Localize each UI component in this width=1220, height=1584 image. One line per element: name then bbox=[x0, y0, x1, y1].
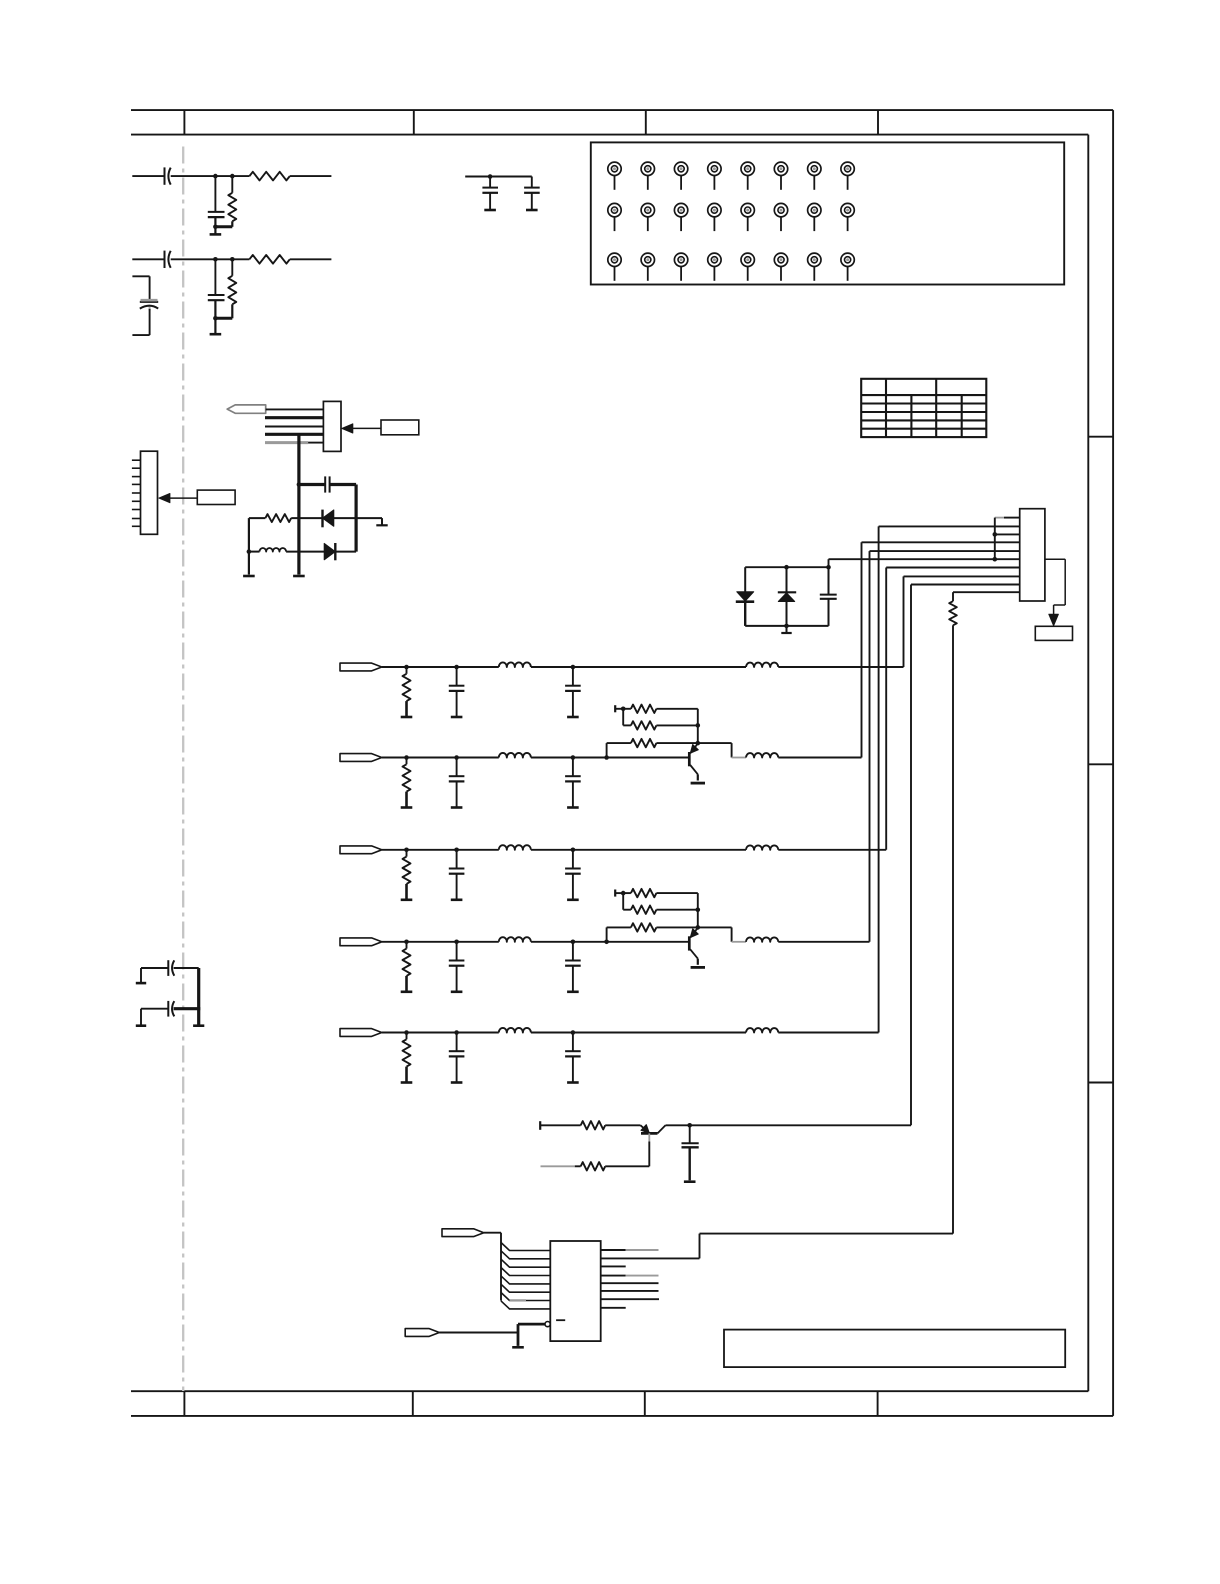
node channel 2 R feedback tap bbox=[604, 755, 609, 760]
detail label box under J4 bbox=[1035, 626, 1072, 640]
wire Q4 emitter to ground bbox=[697, 959, 699, 965]
capacitor C2a (shunt) bbox=[456, 758, 458, 777]
wire channel 5 seg5 bbox=[573, 1032, 746, 1034]
ic U1 body bbox=[550, 1241, 600, 1341]
node Q4 collector tie 2 bbox=[696, 925, 701, 930]
capacitor C4 (shunt input 2) bbox=[214, 259, 216, 295]
node suppressor bottom mid bbox=[784, 624, 789, 629]
wire channel 3 to bus bbox=[778, 849, 886, 851]
node input1-b bbox=[230, 174, 235, 179]
connector J3 test point pins bbox=[608, 162, 855, 281]
capacitor C4b (shunt) bbox=[572, 942, 574, 961]
reference label box for J2 bbox=[197, 490, 235, 504]
wire R4b3 lead left bbox=[607, 926, 631, 928]
node Q4 collector tie 1 bbox=[696, 907, 701, 912]
page frame right border bbox=[1087, 135, 1089, 1392]
node input1-a bbox=[213, 174, 218, 179]
wire U1 output pin 2 (to J4 pin10 net) bbox=[601, 1257, 700, 1259]
node channel 2 cap A bbox=[454, 755, 459, 760]
wire input line 1 output bbox=[290, 175, 332, 177]
inductor L3a (series) bbox=[499, 845, 531, 850]
wire R8 to Q3 stem bbox=[605, 1165, 649, 1167]
connector J4 body bbox=[1020, 509, 1045, 601]
connector J3 header outline bbox=[591, 142, 1064, 284]
ground R51 bbox=[401, 1081, 413, 1084]
resistor R4b3 bbox=[631, 923, 657, 931]
wire C11 right lead bbox=[174, 967, 199, 969]
ground C11-C12 right leg bbox=[193, 1024, 204, 1027]
ground suppressor bbox=[786, 626, 788, 633]
wire Q4 bias tie vertical bbox=[622, 893, 624, 910]
ground C11 left bbox=[136, 982, 146, 985]
terminal stub Q3 input bbox=[539, 1121, 541, 1130]
wire J4 pin1 stub bbox=[995, 517, 1004, 519]
wire Q4 output drop bbox=[698, 926, 732, 928]
wire J4 pin2 bbox=[879, 525, 1020, 527]
net label tag (left-pointing) for J1 bbox=[227, 405, 266, 413]
ground Q2 bbox=[691, 782, 705, 785]
resistor R4b1 bbox=[631, 889, 657, 897]
arrow to J1 bbox=[349, 427, 381, 429]
node link input 1 bbox=[213, 225, 218, 230]
wire channel 2 to bus bbox=[778, 757, 861, 759]
ground C7 bbox=[526, 209, 538, 212]
diode D2 (points up) bbox=[786, 567, 788, 592]
terminal stub Q4 bias bbox=[614, 890, 616, 897]
diode D4 (points right) bbox=[324, 543, 335, 559]
wire C12 left lead bbox=[141, 1008, 168, 1010]
wire channel 3 seg3 bbox=[457, 849, 499, 851]
wire U1 output pin 1 bbox=[601, 1249, 626, 1251]
wire Q2 node vertical bbox=[697, 709, 699, 743]
wire channel 2 seg4 bbox=[531, 757, 573, 759]
wire Q4 node vertical bbox=[697, 893, 699, 927]
wire channel 3 seg5 bbox=[573, 849, 746, 851]
resistor R31 (shunt) bbox=[406, 850, 408, 857]
node link input 2 bbox=[213, 316, 218, 321]
node channel 1 cap A bbox=[454, 665, 459, 670]
wire R4b2 to node bbox=[656, 909, 697, 911]
wire channel 1 seg4 bbox=[531, 666, 573, 668]
node J4 pin3 tie bbox=[993, 532, 998, 537]
wire Q3 base row bbox=[540, 1124, 581, 1126]
inductor L1b (series output) bbox=[746, 663, 778, 667]
node channel 4 shunt R bbox=[404, 940, 409, 945]
resistor R4 (shunt input 2) bbox=[231, 259, 233, 276]
ground R31 bbox=[401, 898, 413, 901]
node suppressor top mid bbox=[784, 565, 789, 570]
wire channel 3 input bbox=[382, 849, 407, 851]
wire link C4-R4 bottom bbox=[214, 317, 232, 320]
wire channel 2 input bbox=[382, 757, 407, 759]
wire J4 pin4 bbox=[862, 541, 1020, 543]
wire channel 1 seg2 bbox=[407, 666, 457, 668]
net label tag channel 3 bbox=[340, 846, 382, 854]
node J4 pin6 tie bbox=[993, 557, 998, 562]
arrow to J2 bbox=[170, 497, 198, 499]
wire R2b3 lead left bbox=[607, 742, 631, 744]
node channel 5 shunt R bbox=[404, 1030, 409, 1035]
net label tag channel 5 bbox=[340, 1029, 382, 1037]
wire C5 bottom stub bbox=[149, 307, 151, 310]
wire channel 2 seg3 bbox=[457, 757, 499, 759]
capacitor C6 (decoupling) bbox=[489, 177, 491, 188]
wire R4b1 to node bbox=[656, 892, 697, 894]
resistor R6 (on J4 pin10 net) bbox=[952, 592, 954, 601]
wire J1 pin 1 bbox=[266, 408, 324, 410]
resistor R8 bbox=[581, 1162, 606, 1170]
wire Q3 collector row bbox=[666, 1124, 912, 1126]
wire Q4 output stub (faded) bbox=[732, 941, 746, 943]
wire bus to channel 3 bbox=[885, 568, 887, 850]
capacitor C12 (series) bbox=[167, 1001, 169, 1017]
wire Q2 bias tie vertical bbox=[622, 709, 624, 726]
wire channel 2 seg2 bbox=[407, 757, 457, 759]
node channel 4 cap A bbox=[454, 940, 459, 945]
capacitor C1a (shunt) bbox=[456, 667, 458, 686]
wire Q2 output stub (faded) bbox=[732, 757, 746, 759]
resistor R3 (series input 2) bbox=[249, 255, 289, 264]
resistor R1 (series input 1) bbox=[249, 172, 289, 181]
connector J2 pin stubs bbox=[132, 460, 141, 526]
wire J1 pin 5 (faded) bbox=[265, 441, 308, 444]
wire channel 1 input bbox=[382, 666, 407, 668]
inductor L2a (series) bbox=[499, 753, 531, 758]
resistor R21 (shunt) bbox=[406, 758, 408, 765]
wire R5 to D3 bbox=[291, 517, 322, 519]
inductor L4a (series) bbox=[499, 937, 531, 942]
resistor R7 bbox=[581, 1121, 606, 1129]
wire net from J4 pin6 to suppressor bbox=[829, 558, 1020, 560]
node channel 4 R feedback tap bbox=[604, 940, 609, 945]
wire Q3 base stem (faded top) bbox=[648, 1133, 650, 1141]
wire U1 input fan bbox=[501, 1243, 550, 1309]
net label tag channel 4 bbox=[340, 938, 382, 946]
net label tag channel 2 bbox=[340, 754, 382, 762]
ground stub right of D3 bbox=[381, 518, 383, 525]
wire channel 4 input bbox=[382, 941, 407, 943]
inductor L1 bbox=[248, 551, 260, 553]
resistor R2b3 bbox=[631, 739, 657, 747]
wire channel 2 seg5 bbox=[573, 757, 688, 759]
wire input line 2 bbox=[132, 258, 164, 260]
board boundary dash-dot line bbox=[182, 147, 184, 1392]
wire J1 pin 3 bbox=[265, 426, 323, 428]
reference label box for J1 bbox=[381, 420, 419, 435]
node input2-a bbox=[213, 257, 218, 262]
wire link C2-R2 bottom bbox=[214, 225, 232, 228]
net label tag U1 enable bbox=[405, 1329, 439, 1337]
wire D3 to stub bbox=[334, 517, 382, 519]
wire C8 branch (thick) bbox=[299, 483, 325, 486]
ground C6 bbox=[484, 209, 496, 212]
wire U1 enable (thick) bbox=[518, 1323, 545, 1326]
terminal stub Q2 bias bbox=[614, 705, 616, 712]
wire J4 output to detail box bbox=[1045, 558, 1065, 560]
node Q3 collector bbox=[687, 1123, 692, 1128]
transistor Q4 bbox=[688, 936, 691, 950]
wire R4b2 lead bbox=[623, 909, 631, 911]
net label tag channel 1 bbox=[340, 663, 382, 671]
wire U1 output pin 8 bbox=[601, 1307, 626, 1309]
node channel 3 shunt R bbox=[404, 848, 409, 853]
wire suppressor bottom rail bbox=[745, 625, 828, 627]
wire J4 pins 1-3-6 tie vertical bbox=[994, 518, 996, 560]
wire J4 pin8 bbox=[904, 575, 1020, 577]
wire U1 bus feed bbox=[484, 1232, 501, 1234]
wire channel 4 seg4 bbox=[531, 941, 573, 943]
node input2-b bbox=[230, 257, 235, 262]
wire input line 2 output bbox=[290, 258, 332, 260]
ground Q4 bbox=[691, 966, 705, 969]
wire thick net from J1 pin 4 down bbox=[297, 434, 300, 574]
wire channel 5 seg4 bbox=[531, 1032, 573, 1034]
wire L1 to D4 bbox=[286, 551, 324, 553]
wire bus to output stage bbox=[910, 585, 912, 1126]
wire Q4 R top row bbox=[615, 892, 631, 894]
wire R2b1 to node bbox=[656, 708, 697, 710]
ground R21 bbox=[401, 806, 413, 809]
ground R41 bbox=[401, 990, 413, 993]
resistor R41 (shunt) bbox=[406, 942, 408, 949]
wire channel 1 seg3 bbox=[457, 666, 499, 668]
wire Q2 emitter to ground bbox=[697, 774, 699, 780]
ground R11 bbox=[401, 716, 413, 719]
wire channel 5 seg3 bbox=[457, 1032, 499, 1034]
wire channel 4 seg3 bbox=[457, 941, 499, 943]
capacitor C7 (decoupling) bbox=[531, 177, 533, 188]
wire U1 output pin 3 bbox=[601, 1265, 626, 1267]
net label tag U1 bus input bbox=[442, 1229, 484, 1237]
capacitor C3 (series input 2) bbox=[164, 251, 166, 268]
wire J4 pin3 bbox=[995, 533, 1020, 535]
wire bus to channel 2 bbox=[861, 542, 863, 757]
wire C12 right lead (thick) bbox=[174, 1007, 201, 1010]
node Q2 collector tie 1 bbox=[696, 723, 701, 728]
resistor R4b2 bbox=[631, 906, 657, 914]
wire J4 pin7 bbox=[886, 567, 1020, 569]
node channel 2 shunt R bbox=[404, 755, 409, 760]
node channel 2 cap B bbox=[571, 755, 576, 760]
wire channel 1 to bus bbox=[778, 666, 903, 668]
capacitor C9 bbox=[828, 567, 830, 594]
wire suppressor top rail bbox=[745, 566, 828, 568]
resistor R51 (shunt) bbox=[406, 1033, 408, 1040]
capacitor C2 (shunt input 1) bbox=[214, 176, 216, 212]
wire channel 4 seg2 bbox=[407, 941, 457, 943]
ic U1 inverted-enable mark bbox=[556, 1319, 565, 1321]
wire left leg R5-L1 bbox=[248, 518, 250, 574]
diode D1 (zener, points down) bbox=[744, 567, 746, 592]
capacitor C8 bbox=[324, 476, 326, 492]
wire Q2 output drop bbox=[698, 742, 732, 744]
transistor Q2 bbox=[688, 752, 691, 766]
node Q2 bias tie bbox=[621, 707, 626, 712]
capacitor C4a (shunt) bbox=[456, 942, 458, 961]
ground U1 enable bbox=[512, 1346, 524, 1349]
wire bus to channel 4 bbox=[869, 551, 871, 942]
resistor R2 (shunt input 1) bbox=[231, 176, 233, 193]
diode D3 (points left) bbox=[321, 510, 323, 528]
wire channel 1 seg5 bbox=[573, 666, 746, 668]
capacitor C11 (series) bbox=[167, 960, 169, 976]
transistor Q3 bbox=[641, 1125, 650, 1133]
note box (bottom right) bbox=[724, 1330, 1065, 1368]
capacitor C3b (shunt) bbox=[572, 850, 574, 869]
wire C11 left lead bbox=[141, 967, 168, 969]
ic U1 enable bubble bbox=[545, 1322, 550, 1327]
ground C12 left bbox=[136, 1024, 146, 1027]
connector J1 body bbox=[323, 401, 341, 451]
node Q4 bias tie bbox=[621, 891, 626, 896]
wire channel 3 seg2 bbox=[407, 849, 457, 851]
wire channel 3 seg4 bbox=[531, 849, 573, 851]
ground input network 1 bbox=[210, 233, 222, 236]
capacitor C2b (shunt) bbox=[572, 758, 574, 777]
wire channel 5 input bbox=[382, 1032, 407, 1034]
capacitor C10 bbox=[689, 1125, 691, 1143]
node channel 5 cap B bbox=[571, 1030, 576, 1035]
node channel 3 cap A bbox=[454, 848, 459, 853]
wire channel 5 to bus bbox=[778, 1032, 878, 1034]
wire J1 pin 4 (thick) bbox=[265, 433, 323, 436]
revision table bbox=[861, 379, 986, 437]
ground below J1 net bbox=[293, 575, 305, 578]
connector J2 body bbox=[141, 451, 158, 534]
wire C5 top stub bbox=[132, 275, 149, 277]
inductor L4b (series output) bbox=[746, 937, 778, 941]
wire Q3 lower row (faded left) bbox=[541, 1165, 575, 1167]
node channel 1 cap B bbox=[571, 665, 576, 670]
wire bus pin10 down to logic bbox=[952, 625, 954, 1233]
capacitor C1 (series input 1) bbox=[164, 167, 166, 184]
wire J4 pin10 bbox=[953, 591, 1020, 593]
node decoupling bbox=[488, 174, 493, 179]
page frame bottom border band bbox=[131, 1390, 1088, 1392]
wire Q2 R top row bbox=[615, 708, 631, 710]
node suppressor top right bbox=[826, 565, 831, 570]
node channel 5 cap A bbox=[454, 1030, 459, 1035]
wire bus to channel 5 bbox=[878, 526, 880, 1032]
capacitor C3a (shunt) bbox=[456, 850, 458, 869]
wire R2b2 to node bbox=[656, 724, 697, 726]
wire U1 output pin 6 bbox=[601, 1290, 659, 1292]
inductor L3b (series output) bbox=[746, 845, 778, 849]
wire C8 to right leg (thick) bbox=[330, 483, 357, 486]
wire decoupling rail bbox=[465, 176, 532, 178]
wire J4 pin5 bbox=[870, 550, 1020, 552]
wire U1 output pin 4 bbox=[601, 1275, 626, 1277]
wire U1 fan faded segment bbox=[510, 1299, 527, 1301]
resistor R11 (shunt) bbox=[406, 667, 408, 674]
wire channel 5 seg2 bbox=[407, 1032, 457, 1034]
wire R2b3 to node bbox=[656, 742, 697, 744]
capacitor C1b (shunt) bbox=[572, 667, 574, 686]
page frame top border band bbox=[131, 109, 1113, 111]
node channel 3 cap B bbox=[571, 848, 576, 853]
wire input line 1 bbox=[132, 175, 164, 177]
capacitor C5 (polarized) bbox=[140, 301, 158, 303]
wire R4b3 to node bbox=[656, 926, 697, 928]
resistor R5 bbox=[249, 517, 266, 519]
node Q2 collector tie 2 bbox=[696, 741, 701, 746]
ground left leg bbox=[243, 575, 255, 578]
inductor L5a (series) bbox=[499, 1028, 531, 1033]
wire R7 to Q3 bbox=[605, 1124, 640, 1126]
wire bus to channel 1 bbox=[903, 576, 905, 667]
resistor R2b1 bbox=[631, 705, 657, 713]
wire J4 pin9 bbox=[911, 584, 1020, 586]
capacitor C5a (shunt) bbox=[456, 1033, 458, 1052]
inductor L2b (series output) bbox=[746, 753, 778, 757]
inductor L5b (series output) bbox=[746, 1028, 778, 1032]
ground C10 bbox=[684, 1180, 696, 1183]
wire J1 pin 2 (thick) bbox=[265, 416, 323, 419]
inductor L1a (series) bbox=[499, 662, 531, 667]
wire channel 4 to bus bbox=[778, 941, 869, 943]
wire D4 to right leg bbox=[335, 551, 356, 553]
node left leg at L1 bbox=[247, 549, 252, 554]
wire C11-C12 right leg (thick) bbox=[197, 968, 200, 1025]
wire U1 output pin 7 bbox=[601, 1298, 659, 1300]
node J1 pin4 branch bbox=[297, 482, 302, 487]
ground input network 2 bbox=[210, 333, 222, 336]
resistor R2b2 bbox=[631, 721, 657, 729]
wire channel 4 seg5 bbox=[573, 941, 688, 943]
node channel 4 cap B bbox=[571, 940, 576, 945]
capacitor C5b (shunt) bbox=[572, 1033, 574, 1052]
wire U1 enable label feed bbox=[439, 1332, 518, 1334]
wire R2b2 lead bbox=[623, 724, 631, 726]
wire U1 output pin 5 bbox=[601, 1282, 659, 1284]
node channel 1 shunt R bbox=[404, 665, 409, 670]
